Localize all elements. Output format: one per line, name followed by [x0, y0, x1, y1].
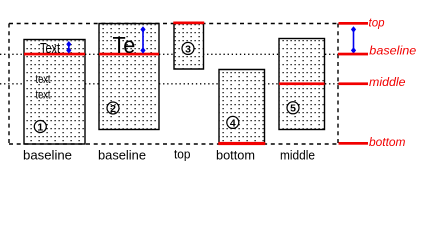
box 4 circled digit 4 [227, 116, 239, 128]
box 3 circled digit 3 [182, 42, 194, 54]
svg-text:top: top [369, 15, 385, 29]
right red middle line [339, 82, 369, 85]
svg-text:1: 1 [37, 121, 43, 133]
svg-text:Text: Text [40, 40, 61, 57]
svg-text:3: 3 [185, 43, 191, 55]
box 2 red baseline [99, 53, 159, 56]
box 4 red bottom line [218, 142, 265, 145]
svg-text:baseline: baseline [23, 147, 72, 162]
svg-text:2: 2 [110, 103, 116, 115]
svg-text:5: 5 [290, 103, 296, 115]
right blue arrow [351, 26, 356, 53]
box 4 (bottom aligned) [218, 70, 265, 146]
svg-text:top: top [174, 147, 191, 162]
right red top line [339, 22, 369, 25]
line box (dashed rectangle) [9, 24, 338, 145]
dotted baseline guide line [0, 53, 339, 55]
box 5 (middle aligned) [279, 39, 325, 130]
svg-text:text: text [36, 72, 52, 86]
box 3 (top aligned) [173, 22, 204, 70]
box 1 circled digit 1 [34, 121, 46, 133]
box 1 (baseline aligned) [24, 40, 85, 145]
svg-text:baseline: baseline [369, 43, 416, 57]
box 5 red middle line [279, 82, 325, 85]
right red bottom line [339, 142, 369, 145]
box 1 red baseline [24, 53, 85, 56]
box 5 circled digit 5 [287, 102, 299, 114]
dotted middle guide line [0, 83, 339, 85]
svg-text:text: text [36, 88, 52, 102]
svg-text:Te: Te [113, 32, 136, 58]
box 1 blue arrow [66, 41, 71, 54]
box 2 blue arrow [140, 26, 145, 53]
svg-text:middle: middle [369, 75, 406, 89]
right red baseline line [338, 53, 368, 56]
svg-text:bottom: bottom [216, 147, 255, 162]
svg-text:4: 4 [230, 117, 236, 129]
box 2 circled digit 2 [107, 102, 119, 114]
box 3 red top line [173, 22, 204, 25]
svg-text:bottom: bottom [369, 135, 406, 149]
svg-text:middle: middle [280, 147, 315, 162]
svg-text:baseline: baseline [98, 147, 146, 162]
box 2 (baseline aligned, large font) [99, 24, 159, 130]
